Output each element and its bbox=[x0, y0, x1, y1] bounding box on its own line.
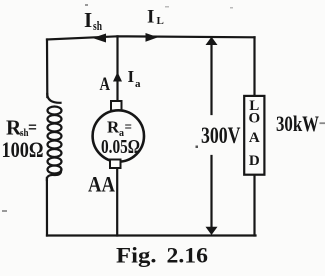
svg-text:I: I bbox=[147, 7, 154, 28]
svg-text:D: D bbox=[249, 153, 260, 169]
svg-text:O: O bbox=[248, 111, 260, 127]
svg-text:a: a bbox=[135, 78, 141, 90]
svg-text:A: A bbox=[100, 74, 111, 95]
svg-text:30kW: 30kW bbox=[276, 111, 319, 136]
svg-text:I: I bbox=[84, 8, 92, 32]
svg-text:Fig.: Fig. bbox=[116, 243, 157, 268]
svg-text:A: A bbox=[249, 130, 260, 146]
svg-text:0.05Ω: 0.05Ω bbox=[101, 136, 140, 158]
svg-text:AA: AA bbox=[88, 171, 115, 196]
svg-text:=: = bbox=[28, 118, 37, 139]
svg-text:I: I bbox=[128, 67, 135, 86]
svg-text:=: = bbox=[125, 120, 133, 136]
svg-text:L: L bbox=[157, 15, 164, 27]
svg-text:sh: sh bbox=[93, 19, 102, 33]
svg-text:2.16: 2.16 bbox=[167, 243, 209, 268]
svg-text:300V: 300V bbox=[201, 123, 241, 149]
svg-text:100Ω: 100Ω bbox=[2, 137, 44, 162]
